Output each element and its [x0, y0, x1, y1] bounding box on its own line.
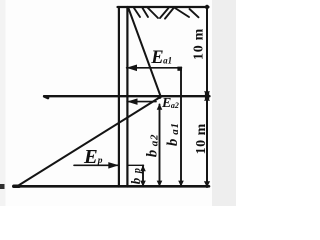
svg-text:10 m: 10 m [192, 28, 207, 60]
svg-text:10 m: 10 m [194, 123, 209, 154]
